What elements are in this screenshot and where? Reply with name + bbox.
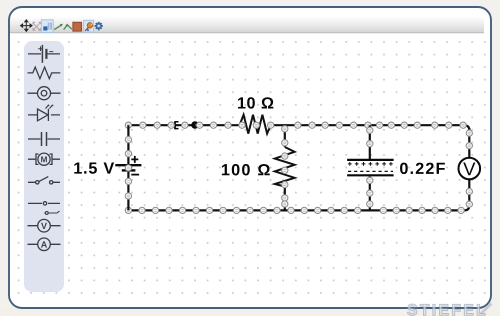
capacitor positive charge row bbox=[348, 162, 393, 166]
palette icon: push switch bbox=[28, 202, 60, 215]
wire: top horizontal bbox=[128, 125, 469, 130]
label: battery voltage bbox=[74, 162, 114, 173]
palette icon: ammeter bbox=[28, 238, 61, 251]
toolbar button: move tool bbox=[21, 20, 33, 32]
connector socket (C) on top wire bbox=[191, 121, 200, 129]
toolbar button: orange square bbox=[73, 22, 82, 31]
node beads on top wire bbox=[125, 122, 466, 128]
connector plug (fork) on top wire bbox=[175, 121, 179, 129]
palette icon: resistor bbox=[28, 67, 61, 79]
watermark bbox=[407, 304, 485, 315]
palette icon: voltmeter bbox=[28, 219, 61, 232]
palette icon: battery bbox=[28, 45, 60, 63]
palette icon: lamp bbox=[28, 87, 61, 100]
node beads on left wire bbox=[125, 136, 131, 199]
palette icon: LED bbox=[28, 105, 60, 121]
palette icon: switch open bbox=[28, 177, 60, 184]
wire: 100 ohm branch vertical bbox=[284, 125, 286, 210]
toolbar button: draw wire (green rising arrow) bbox=[54, 24, 63, 30]
wire: left vertical bbox=[127, 125, 129, 210]
toolbar button: settings gear bbox=[95, 22, 103, 31]
toolbar button: component toggle (selected) bbox=[41, 20, 53, 33]
component palette panel bbox=[24, 41, 64, 292]
resistor R2 100 ohm bbox=[275, 147, 295, 187]
toolbar button: scale tool (faint) bbox=[33, 22, 41, 30]
wire: right vertical with meter bbox=[466, 128, 472, 207]
resistor R1 10 ohm bbox=[240, 115, 271, 134]
palette icon: capacitor bbox=[28, 132, 60, 146]
toolbar bar bbox=[9, 17, 484, 33]
toolbar button: pin tool (selected) bbox=[84, 20, 94, 32]
wire: capacitor branch vertical bbox=[367, 125, 373, 210]
toolbar button: green chevron bbox=[64, 23, 72, 29]
battery B1 1.5 V bbox=[115, 156, 141, 175]
label: 100 ohm bbox=[222, 164, 270, 175]
palette icon: motor bbox=[28, 153, 60, 165]
voltmeter M1 bbox=[459, 158, 481, 180]
node beads on 100 ohm branch bbox=[282, 126, 288, 208]
label: 10 ohm bbox=[238, 97, 273, 108]
wire: bottom horizontal bbox=[125, 205, 469, 214]
capacitor negative charge dashed line bbox=[348, 170, 393, 172]
label: capacitance bbox=[400, 163, 445, 174]
capacitor C1 0.22F plates bbox=[347, 160, 394, 175]
